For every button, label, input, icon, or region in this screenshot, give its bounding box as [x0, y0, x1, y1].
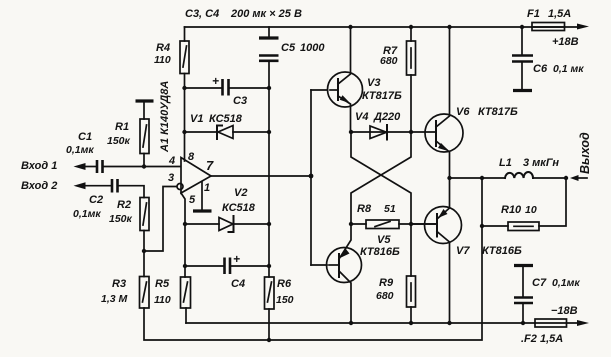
output arrow [570, 175, 579, 181]
ground bar above R1 [136, 99, 154, 102]
wire top +supply rail [185, 26, 533, 28]
svg-text:150к: 150к [107, 135, 131, 147]
svg-text:C7: C7 [532, 277, 547, 289]
transistor V6 КТ817Б [425, 114, 463, 152]
wire input1 to op-amp pin 4 [104, 166, 180, 168]
svg-text:0,1мк: 0,1мк [66, 144, 94, 156]
svg-text:Вход 1: Вход 1 [21, 160, 57, 172]
svg-text:F1: F1 [527, 8, 540, 20]
svg-text:C3, C4: C3, C4 [185, 8, 219, 20]
transistor V7 КТ816Б [425, 207, 462, 244]
svg-text:V5: V5 [377, 234, 391, 246]
svg-text:V7: V7 [456, 245, 470, 257]
svg-text:V6: V6 [456, 106, 470, 118]
svg-text:0,1 мк: 0,1 мк [553, 63, 584, 75]
svg-text:R1: R1 [115, 121, 129, 133]
svg-text:150: 150 [276, 294, 294, 306]
capacitor C2 [112, 179, 118, 193]
resistor R1 [140, 119, 149, 154]
svg-text:R5: R5 [155, 278, 170, 290]
capacitor C4 [185, 265, 224, 267]
capacitor C1 [97, 160, 103, 173]
svg-text:150к: 150к [109, 213, 133, 225]
capacitor C5 [268, 27, 270, 37]
svg-text:V3: V3 [367, 77, 380, 89]
zener V2 КС518 [185, 223, 219, 225]
wire R5 bottom to -18V rail [185, 308, 187, 323]
zener V1 КС518 [185, 131, 216, 133]
svg-text:R10: R10 [501, 204, 522, 216]
resistor R9 [410, 224, 412, 276]
svg-text:R2: R2 [117, 199, 131, 211]
wire crossover X left-top to right-bottom [351, 132, 411, 224]
node junction R2/R3/pin3 [142, 249, 146, 253]
svg-text:КТ816Б: КТ816Б [360, 246, 400, 258]
resistor R8 [351, 223, 366, 225]
fuse F1 [532, 26, 577, 28]
inductor L1 [505, 172, 533, 178]
svg-text:51: 51 [384, 203, 396, 215]
svg-text:+18В: +18В [552, 36, 579, 48]
svg-text:.F2 1,5А: .F2 1,5А [521, 333, 563, 345]
svg-text:C5: C5 [281, 42, 296, 54]
svg-text:C3: C3 [233, 95, 247, 107]
svg-text:5: 5 [189, 194, 196, 206]
capacitor C7 [514, 264, 533, 267]
capacitor C6 [521, 27, 523, 54]
svg-text:+: + [233, 252, 240, 266]
svg-text:V1: V1 [190, 113, 203, 125]
svg-text:3: 3 [168, 172, 174, 184]
svg-text:КТ817Б: КТ817Б [478, 106, 518, 118]
wire R4 bottom to pin 8 column [184, 74, 186, 162]
svg-text:8: 8 [188, 151, 195, 163]
svg-text:1,3 М: 1,3 М [101, 293, 128, 305]
svg-text:+: + [212, 74, 219, 88]
wire junction to op-amp pin 3 [144, 187, 177, 252]
node op-amp output junction [309, 174, 314, 179]
wire op-amp pins 5,1 to ground bar [201, 182, 203, 211]
wire input 2 with arrow [74, 182, 86, 189]
fuse F2 [535, 319, 567, 327]
resistor R5 [181, 277, 191, 308]
svg-text:4: 4 [168, 155, 175, 167]
diode V4 Д220 [351, 131, 411, 133]
svg-text:110: 110 [154, 54, 171, 66]
svg-text:1: 1 [204, 182, 210, 194]
resistor R7 [410, 27, 412, 41]
svg-text:R4: R4 [156, 42, 170, 54]
capacitor C3 [185, 87, 221, 89]
svg-text:10: 10 [525, 204, 537, 216]
svg-text:C1: C1 [78, 131, 92, 143]
svg-text:680: 680 [376, 290, 394, 302]
svg-text:R9: R9 [379, 277, 394, 289]
svg-text:Выход: Выход [578, 132, 592, 174]
wire input2 to R2 top [119, 186, 144, 198]
node junction R1/input1 [142, 164, 146, 168]
op-amp U1 A1 К140УД8А [181, 158, 211, 194]
wire bottom -18V rail [186, 322, 535, 324]
svg-text:R3: R3 [112, 278, 126, 290]
svg-text:200 мк × 25 В: 200 мк × 25 В [230, 8, 302, 20]
svg-text:КТ816Б: КТ816Б [482, 245, 522, 257]
wire R6 bottom to feedback line [268, 309, 270, 340]
svg-text:Вход 2: Вход 2 [21, 180, 57, 192]
svg-text:1000: 1000 [300, 42, 325, 54]
svg-text:КТ817Б: КТ817Б [362, 90, 402, 102]
resistor R2 [140, 198, 149, 231]
svg-text:7: 7 [206, 158, 214, 173]
svg-text:V2: V2 [234, 187, 247, 199]
ground bar under op-amp [193, 209, 212, 212]
wire output node line [450, 177, 506, 179]
svg-text:110: 110 [154, 294, 171, 306]
svg-text:−18В: −18В [551, 305, 578, 317]
svg-text:Д220: Д220 [373, 111, 401, 123]
svg-text:1,5А: 1,5А [548, 8, 571, 20]
svg-text:R6: R6 [277, 278, 292, 290]
wire input 1 with arrow [74, 163, 86, 170]
wire base column V3/V5 [310, 90, 312, 265]
svg-text:V4: V4 [355, 111, 368, 123]
resistor R10 [482, 225, 508, 227]
transistor V3 КТ817Б [328, 72, 363, 107]
svg-text:А1 К140УД8А: А1 К140УД8А [159, 81, 171, 153]
resistor R4 [184, 27, 186, 41]
svg-text:C6: C6 [533, 63, 548, 75]
svg-text:0,1мк: 0,1мк [73, 208, 101, 220]
wire op-amp bottom corner down column [181, 193, 185, 277]
svg-text:680: 680 [380, 55, 398, 67]
svg-text:КС518: КС518 [222, 202, 256, 214]
transistor V5 КТ816Б [327, 248, 362, 283]
wire feedback line from R3 bottom to output node [144, 178, 482, 340]
wire op-amp output pin7 [211, 175, 311, 177]
svg-text:КС518: КС518 [209, 113, 243, 125]
resistor R6 [265, 277, 275, 309]
svg-text:C2: C2 [89, 194, 103, 206]
svg-text:R8: R8 [357, 203, 372, 215]
wire crossover X right-top to left-bottom [351, 132, 411, 224]
svg-text:L1: L1 [499, 157, 512, 169]
svg-text:C4: C4 [231, 278, 245, 290]
resistor R3 [140, 277, 150, 309]
svg-text:3 мкГн: 3 мкГн [523, 157, 559, 169]
svg-text:0,1мк: 0,1мк [552, 277, 580, 289]
